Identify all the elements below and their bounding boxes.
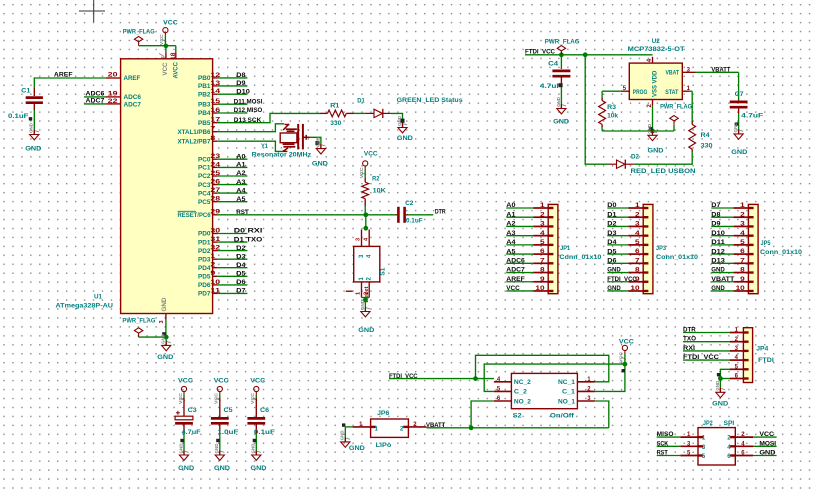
svg-text:2: 2 — [400, 426, 404, 433]
svg-text:R4: R4 — [701, 132, 710, 139]
svg-text:GND: GND — [553, 118, 569, 125]
svg-text:GND: GND — [349, 445, 365, 452]
pin 6 of JP4 — [730, 374, 749, 380]
pin 25 PC2 of U1 — [198, 170, 247, 180]
svg-text:GND: GND — [157, 354, 173, 361]
microcontroller U1 ATmega328P-AU body — [56, 59, 213, 314]
svg-text:PD0: PD0 — [198, 231, 211, 238]
svg-text:D2: D2 — [631, 154, 639, 161]
power flag PWR_FLAG above U1 — [123, 29, 155, 46]
label ADC7 — [84, 98, 106, 105]
pin 4 D10 of JP5 — [711, 230, 753, 237]
black square marker at C4 — [559, 83, 563, 87]
wire S2 NO_1 to VBATT — [595, 401, 609, 428]
ground below C4 — [553, 96, 569, 125]
label ADC6 — [84, 90, 106, 97]
pin 7 D6 of JP3 — [607, 258, 648, 265]
pin 2 PD4 of U1 — [198, 262, 247, 272]
svg-text:19: 19 — [108, 92, 119, 98]
svg-text:PWR_FLAG: PWR_FLAG — [545, 38, 580, 45]
capacitor C5 1.0uF — [211, 395, 239, 456]
junction FTDI_VCC at C4 — [559, 52, 564, 57]
svg-text:330: 330 — [330, 120, 341, 127]
svg-text:GND: GND — [711, 267, 725, 274]
svg-text:RST: RST — [657, 450, 668, 457]
pin 5 of JP4 — [730, 364, 749, 370]
svg-text:3: 3 — [356, 238, 362, 241]
svg-text:D3: D3 — [236, 253, 246, 260]
svg-text:PD1: PD1 — [198, 239, 211, 246]
svg-text:PD7: PD7 — [198, 291, 211, 298]
svg-text:PC2: PC2 — [198, 173, 211, 180]
pin 6 D12 of JP5 — [711, 248, 753, 255]
svg-text:PD3: PD3 — [198, 256, 211, 263]
svg-text:GND: GND — [731, 149, 747, 156]
svg-text:VCC: VCC — [162, 62, 169, 75]
pin 5 D11 of JP5 — [711, 239, 753, 246]
svg-text:GND: GND — [251, 465, 267, 472]
power VCC above C6 — [250, 378, 265, 404]
svg-text:PC4: PC4 — [198, 190, 211, 197]
junction U1 ground node — [164, 335, 169, 340]
black square marker at resonator ground — [315, 141, 319, 145]
svg-text:D11: D11 — [711, 239, 725, 246]
wire S2 NC_1 loop to FTDI_VCC — [476, 355, 609, 382]
svg-text:STAT: STAT — [665, 89, 678, 96]
pin 26 PC3 of U1 — [198, 179, 247, 189]
junction VBATT at S2 — [469, 425, 474, 430]
resistor R4 330 — [689, 91, 713, 151]
ground below JP4 — [712, 380, 728, 407]
diode D1 green status LED — [357, 97, 391, 118]
pin 9 PD5 of U1 — [198, 271, 247, 281]
pin 1 A0 of JP1 — [506, 202, 553, 209]
pin 6 A5 of JP1 — [506, 248, 553, 255]
pin 9 FTDI_VCC of JP3 — [607, 276, 648, 283]
pin 3 D2 of JP3 — [607, 221, 648, 228]
pin 17 PB5 of U1 — [198, 118, 221, 127]
pin 9 VBATT of JP5 — [711, 276, 753, 283]
svg-text:R1: R1 — [330, 103, 339, 110]
pin names inside JP2 — [702, 436, 731, 460]
svg-text:XTAL2/PB7: XTAL2/PB7 — [178, 138, 211, 145]
pin 2 stub of JP6 — [408, 422, 426, 428]
pin 10 PD6 of U1 — [198, 279, 247, 289]
pin 2 A1 of JP1 — [506, 211, 553, 218]
pin 1 D7 of JP5 — [711, 202, 753, 209]
svg-text:D4: D4 — [236, 262, 246, 269]
svg-text:PWR_FLAG: PWR_FLAG — [660, 104, 692, 111]
svg-text:C6: C6 — [260, 407, 269, 414]
pin 15 PB3 of U1 — [198, 98, 263, 108]
svg-text:DTR: DTR — [683, 327, 696, 334]
wire VBATT bus — [426, 427, 608, 429]
svg-text:1: 1 — [375, 426, 379, 433]
pin 14 PB2 of U1 — [198, 88, 250, 98]
svg-text:D9: D9 — [711, 221, 721, 228]
black square marker at C6 — [253, 439, 256, 442]
svg-text:GND: GND — [648, 147, 664, 154]
svg-text:GND: GND — [360, 299, 365, 310]
wire JP6 pin1 to ground — [345, 427, 352, 442]
svg-text:A0: A0 — [506, 202, 516, 209]
svg-text:A4: A4 — [506, 239, 516, 246]
svg-text:D8: D8 — [711, 211, 721, 218]
wire FTDI_VCC down to D2 — [585, 55, 608, 164]
black square marker at JP4 — [717, 373, 720, 376]
svg-text:PB2: PB2 — [198, 91, 211, 98]
ground below C3 — [178, 443, 194, 472]
black square marker below S2 VCC — [622, 369, 625, 372]
diode D2 red USB-on LED — [609, 154, 640, 169]
wire D13 SCK to R1 — [218, 113, 320, 122]
svg-text:MOSI: MOSI — [759, 440, 776, 447]
svg-text:D13 SCK: D13 SCK — [234, 117, 262, 124]
svg-text:GND: GND — [607, 285, 621, 292]
svg-text:NC_2: NC_2 — [514, 379, 532, 386]
power VCC at S2 — [619, 339, 634, 363]
pin 8 ADC7 of JP1 — [506, 267, 553, 274]
wire VBAT to C7 — [696, 72, 739, 99]
svg-text:A3: A3 — [506, 230, 516, 237]
svg-text:D1: D1 — [607, 211, 617, 218]
black square marker at C5 — [216, 439, 219, 442]
svg-text:PB3: PB3 — [198, 101, 211, 108]
svg-text:GND: GND — [607, 267, 621, 274]
svg-text:C_2: C_2 — [514, 389, 528, 396]
ground below S1 — [358, 299, 374, 334]
wire FTDI_VCC to U2 VDD — [525, 54, 653, 56]
ground below U1 — [157, 333, 173, 361]
svg-text:PB0: PB0 — [198, 75, 211, 82]
junction FTDI_VCC branch — [473, 376, 478, 381]
pin 5 left stub of S2 — [494, 387, 512, 393]
svg-text:0.1uF: 0.1uF — [254, 429, 275, 436]
wire S2 NO_2 to VBATT — [471, 401, 494, 428]
svg-text:NC_1: NC_1 — [558, 379, 576, 386]
pin 13 PB1 of U1 — [198, 80, 247, 90]
connector JP5 Conn_01x10 body — [748, 204, 802, 293]
svg-text:C7: C7 — [735, 91, 744, 98]
svg-text:D6: D6 — [236, 279, 246, 286]
pin 5 RST of JP2 — [657, 450, 704, 457]
black square marker at VSS node — [649, 127, 652, 130]
pin 11 PD7 of U1 — [198, 288, 247, 298]
svg-text:PD4: PD4 — [198, 265, 211, 272]
svg-text:R3: R3 — [607, 104, 616, 111]
svg-text:VBATT: VBATT — [711, 67, 730, 74]
wire VSS node to PWR_FLAG — [653, 125, 675, 131]
svg-text:PROG: PROG — [633, 89, 648, 96]
svg-text:GND: GND — [178, 443, 183, 454]
svg-text:MCP73832-5-OT: MCP73832-5-OT — [628, 46, 685, 53]
pin 1 right stub of S2 — [577, 377, 595, 383]
svg-text:GND: GND — [712, 400, 728, 407]
pin 7 XTAL1/PB6 of U1 — [178, 127, 218, 136]
pin 6 GND of JP2 — [730, 450, 777, 457]
pin 27 PC4 of U1 — [198, 187, 247, 197]
svg-text:S2: S2 — [513, 413, 522, 420]
svg-text:VDD: VDD — [652, 70, 659, 84]
junction VCC node — [164, 44, 169, 49]
pin 1 stub of JP6 — [353, 422, 371, 428]
wire PWR_FLAG to VCC — [139, 45, 166, 47]
svg-text:AVCC: AVCC — [173, 62, 180, 79]
capacitor C1 0.1uF — [8, 87, 43, 120]
pin 4 VDD stub of U2 — [647, 57, 653, 63]
wire XTAL1 to resonator top pin — [218, 124, 285, 132]
svg-text:Conn_01x10: Conn_01x10 — [760, 249, 802, 256]
svg-text:GND: GND — [29, 122, 34, 133]
switch S2 On/Off body — [511, 373, 577, 419]
svg-text:C4: C4 — [548, 60, 558, 67]
svg-text:D1: D1 — [357, 97, 365, 104]
pin 10 VCC of JP1 — [506, 285, 553, 292]
battery charger U2 MCP73832-5-OT body — [628, 38, 685, 99]
svg-text:MISO: MISO — [657, 431, 674, 438]
svg-text:S1: S1 — [380, 267, 387, 275]
pin 8 XTAL2/PB7 of U1 — [178, 136, 218, 145]
connector JP4 FTDI body — [743, 328, 774, 383]
wire XTAL2 to resonator bottom pin — [218, 141, 284, 151]
svg-text:C3: C3 — [188, 407, 197, 414]
black square marker near C1 — [29, 117, 32, 120]
black square marker at JP6 — [342, 423, 345, 426]
svg-text:D0 RXI: D0 RXI — [234, 228, 263, 235]
svg-text:A5: A5 — [236, 196, 246, 203]
power VCC above C5 — [214, 378, 229, 404]
svg-text:JP5: JP5 — [761, 240, 771, 247]
svg-text:GND: GND — [358, 327, 374, 334]
svg-text:GND: GND — [214, 465, 230, 472]
connector JP3 Conn_01x10 body — [643, 204, 698, 293]
svg-text:GND: GND — [312, 160, 328, 167]
pin 10 GND of JP3 — [607, 285, 648, 292]
svg-text:GND: GND — [759, 450, 776, 457]
svg-text:JP6: JP6 — [377, 410, 390, 417]
pin 10 GND of JP5 — [711, 285, 753, 292]
pin 3 right stub of S2 — [577, 396, 595, 402]
pin 2 TXO of JP4 — [683, 336, 749, 343]
pin 16 PB4 of U1 — [198, 107, 262, 117]
junction U2 VSS ground node — [650, 129, 655, 134]
ground below C5 — [214, 443, 230, 472]
svg-text:GND: GND — [711, 285, 725, 292]
connector JP2 SPI body — [698, 420, 735, 465]
svg-text:RED_LED USBON: RED_LED USBON — [631, 168, 696, 175]
svg-text:VCC: VCC — [178, 378, 193, 385]
capacitor C4 4.7uF — [540, 55, 571, 109]
svg-text:D4: D4 — [607, 239, 617, 246]
svg-text:D6: D6 — [607, 258, 617, 265]
svg-text:10: 10 — [535, 286, 545, 292]
pin 31 PD1 of U1 — [198, 236, 263, 246]
svg-text:GND: GND — [397, 115, 402, 126]
capacitor C3 4.7uF — [175, 395, 201, 456]
svg-text:GND: GND — [315, 136, 320, 147]
svg-text:VCC: VCC — [214, 378, 229, 385]
svg-text:PD6: PD6 — [198, 282, 211, 289]
svg-text:GND: GND — [161, 333, 166, 344]
pin 1 MISO of JP2 — [657, 431, 704, 438]
svg-text:22: 22 — [108, 99, 119, 105]
svg-text:D7: D7 — [236, 288, 246, 295]
svg-text:PB1: PB1 — [198, 83, 211, 90]
pin 6 left stub of S2 — [494, 396, 512, 402]
svg-text:D12 MISO: D12 MISO — [234, 107, 263, 114]
svg-text:R2: R2 — [372, 176, 380, 183]
pin 22 ADC7 of U1 — [106, 99, 142, 108]
svg-text:GND: GND — [178, 465, 194, 472]
svg-text:SCK: SCK — [657, 440, 669, 447]
svg-text:0.1uF: 0.1uF — [8, 113, 28, 120]
label D13 SCK — [234, 117, 262, 124]
svg-text:XTAL1/PB6: XTAL1/PB6 — [178, 129, 211, 136]
svg-text:Y1: Y1 — [261, 143, 268, 150]
wire R3 to VSS ground node — [602, 106, 652, 132]
label DTR — [435, 209, 446, 216]
svg-text:PC0: PC0 — [198, 156, 211, 163]
svg-text:Resonator 20MHz: Resonator 20MHz — [252, 152, 312, 159]
svg-text:SPI: SPI — [724, 420, 735, 427]
connector JP6 LiPo body — [371, 410, 409, 449]
svg-text:D12: D12 — [711, 248, 725, 255]
svg-text:VCC: VCC — [506, 285, 520, 292]
svg-text:NO_2: NO_2 — [514, 398, 532, 405]
ground after D1 — [397, 115, 413, 142]
resistor R1 330 — [320, 103, 354, 128]
pin 2 right stub of S2 — [577, 387, 595, 393]
pin 20 AREF of U1 — [106, 73, 141, 83]
svg-text:VSS: VSS — [652, 85, 659, 97]
svg-text:GREEN_LED Status: GREEN_LED Status — [397, 97, 463, 104]
svg-text:VCC: VCC — [619, 339, 634, 346]
label FTDI_VCC at S2 — [389, 373, 418, 380]
label GREEN_LED Status — [397, 97, 463, 104]
svg-text:PC5: PC5 — [198, 199, 211, 206]
ground below JP6 — [340, 430, 365, 452]
wire RST from U1 — [218, 214, 396, 216]
svg-text:D1 TXO: D1 TXO — [234, 236, 263, 243]
pin 1 D0 of JP3 — [607, 202, 648, 209]
svg-text:VBATT: VBATT — [711, 276, 734, 283]
pin 30 PD0 of U1 — [198, 228, 263, 238]
label AREF — [54, 71, 73, 78]
svg-text:C2: C2 — [405, 200, 414, 207]
label RST — [236, 209, 249, 216]
wire resonator to ground — [310, 137, 321, 148]
svg-text:JP1: JP1 — [560, 245, 570, 252]
pin 7 D13 of JP5 — [711, 258, 753, 265]
svg-text:RST: RST — [236, 209, 249, 216]
pin 1 DTR of JP4 — [683, 327, 749, 334]
svg-text:D8: D8 — [236, 72, 246, 79]
pin 3 A2 of JP1 — [506, 221, 553, 228]
svg-text:A3: A3 — [236, 179, 246, 186]
ground below U2 VSS — [647, 123, 664, 154]
svg-text:GND: GND — [251, 443, 256, 454]
pin 4 VCC and pin 18 AVCC stubs of U1 — [159, 52, 177, 60]
svg-text:PB5: PB5 — [198, 120, 211, 127]
label VBATT at battery — [426, 422, 446, 429]
black square marker at C7 — [735, 122, 738, 125]
wire C1 to ground — [33, 110, 35, 135]
svg-text:C1: C1 — [21, 87, 31, 94]
junction VCC at S2 — [623, 362, 628, 367]
pin 5 D4 of JP3 — [607, 239, 648, 246]
ground below C6 — [251, 443, 267, 472]
pin 8 GND of JP3 — [607, 267, 648, 274]
svg-text:10K: 10K — [373, 188, 386, 195]
svg-text:GND: GND — [214, 443, 219, 454]
pin 3 D9 of JP5 — [711, 221, 753, 228]
label RED_LED USBON — [631, 168, 696, 175]
junction RST at R2 — [363, 212, 368, 217]
svg-text:NO_1: NO_1 — [558, 398, 576, 405]
svg-text:4.7uF: 4.7uF — [741, 113, 763, 120]
pin 12 PB0 of U1 — [198, 72, 247, 82]
pin 2 VCC of JP2 — [730, 431, 777, 438]
svg-text:FTDI: FTDI — [758, 357, 774, 364]
connector JP1 Conn_01x10 body — [548, 204, 602, 293]
wire AREF to C1 — [34, 78, 105, 88]
wire RST down to S1 — [365, 215, 367, 228]
svg-text:RESET/PC6: RESET/PC6 — [178, 212, 211, 219]
wire PWR_FLAG to GND node — [139, 336, 167, 338]
pin 23 PC0 of U1 — [198, 153, 247, 163]
svg-text:FTDI_VCC: FTDI_VCC — [607, 276, 637, 283]
svg-text:A5: A5 — [506, 248, 516, 255]
wire JP4 pins 5-6 to ground — [720, 369, 729, 392]
svg-text:C5: C5 — [224, 407, 233, 414]
svg-text:VCC: VCC — [759, 431, 774, 438]
svg-text:A2: A2 — [506, 221, 516, 228]
svg-text:ATmega328P-AU: ATmega328P-AU — [56, 303, 114, 310]
svg-text:A0: A0 — [236, 153, 246, 160]
junction above S1 — [363, 226, 368, 231]
svg-text:VBATT: VBATT — [426, 422, 446, 429]
svg-text:D7: D7 — [711, 202, 721, 209]
svg-text:GND: GND — [733, 122, 738, 133]
svg-text:D10: D10 — [711, 230, 725, 237]
black square marker at C3 — [180, 439, 183, 442]
svg-text:ADC7: ADC7 — [124, 101, 142, 108]
svg-text:ADC6: ADC6 — [506, 258, 525, 265]
svg-text:GND: GND — [25, 145, 41, 152]
pin 9 AREF of JP1 — [506, 276, 553, 283]
svg-text:PWR_FLAG: PWR_FLAG — [122, 317, 155, 324]
svg-text:VBAT: VBAT — [666, 70, 680, 77]
svg-text:PC1: PC1 — [198, 165, 211, 172]
svg-text:10: 10 — [630, 286, 640, 292]
svg-text:U2: U2 — [652, 38, 660, 45]
svg-text:U1: U1 — [94, 293, 102, 300]
svg-text:GND: GND — [556, 96, 561, 107]
svg-text:10: 10 — [736, 286, 746, 292]
svg-text:DTR: DTR — [435, 209, 446, 216]
svg-text:A2: A2 — [236, 170, 246, 177]
resonator Y1 20MHz — [252, 124, 312, 159]
svg-text:TXO: TXO — [683, 336, 696, 343]
svg-text:VCC: VCC — [163, 20, 178, 27]
svg-text:D9: D9 — [236, 80, 246, 87]
wire C2 to DTR label — [408, 214, 433, 216]
pin 28 PC5 of U1 — [198, 196, 247, 206]
svg-text:VCC: VCC — [364, 150, 378, 157]
capacitor C2 0.1uF in DTR line — [396, 200, 423, 225]
svg-text:D0: D0 — [607, 202, 617, 209]
power flag PWR_FLAG at FTDI_VCC — [545, 38, 580, 54]
